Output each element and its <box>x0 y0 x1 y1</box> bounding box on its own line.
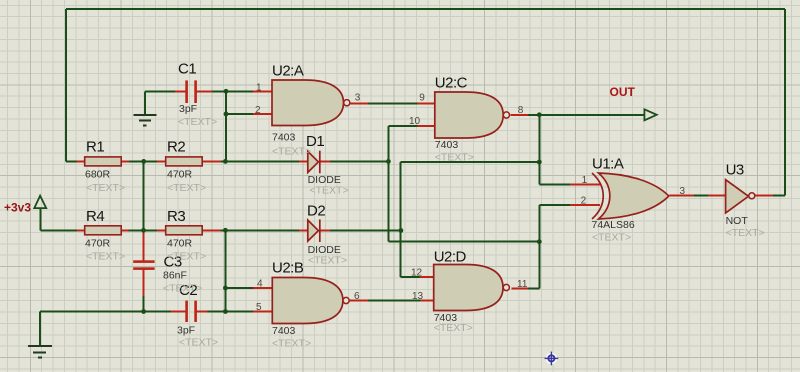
svg-text:11: 11 <box>517 279 528 290</box>
svg-text:<TEXT>: <TEXT> <box>272 146 311 158</box>
svg-text:NOT: NOT <box>726 215 749 227</box>
svg-text:<TEXT>: <TEXT> <box>178 116 217 128</box>
svg-text:3pF: 3pF <box>177 325 195 337</box>
svg-text:10: 10 <box>409 116 421 127</box>
svg-text:2: 2 <box>581 196 587 207</box>
svg-text:R4: R4 <box>86 208 104 225</box>
svg-text:OUT: OUT <box>610 85 636 99</box>
svg-text:9: 9 <box>419 93 425 104</box>
svg-text:D2: D2 <box>307 203 325 220</box>
svg-text:7403: 7403 <box>272 325 296 337</box>
svg-text:680R: 680R <box>85 169 111 181</box>
svg-text:5: 5 <box>256 302 262 313</box>
svg-text:1: 1 <box>256 83 262 94</box>
svg-text:R1: R1 <box>86 139 104 156</box>
svg-text:<TEXT>: <TEXT> <box>167 251 206 263</box>
svg-text:U3: U3 <box>726 162 744 179</box>
svg-text:13: 13 <box>412 291 424 302</box>
svg-text:<TEXT>: <TEXT> <box>179 337 218 349</box>
svg-text:U2:C: U2:C <box>435 75 468 92</box>
svg-text:<TEXT>: <TEXT> <box>308 255 347 267</box>
svg-text:74ALS86: 74ALS86 <box>592 219 635 231</box>
svg-text:470R: 470R <box>167 169 193 181</box>
svg-text:+3v3: +3v3 <box>4 200 31 214</box>
svg-text:<TEXT>: <TEXT> <box>435 152 474 164</box>
svg-text:<TEXT>: <TEXT> <box>726 227 765 239</box>
svg-text:4: 4 <box>257 279 263 290</box>
svg-text:R3: R3 <box>167 208 185 225</box>
svg-text:<TEXT>: <TEXT> <box>434 322 473 334</box>
svg-text:3pF: 3pF <box>179 103 197 115</box>
svg-text:<TEXT>: <TEXT> <box>163 283 202 295</box>
svg-text:3: 3 <box>355 93 361 104</box>
svg-text:470R: 470R <box>167 238 193 250</box>
svg-text:C1: C1 <box>178 61 196 78</box>
svg-text:470R: 470R <box>85 238 111 250</box>
svg-text:1: 1 <box>582 175 588 186</box>
svg-text:<TEXT>: <TEXT> <box>167 182 206 194</box>
svg-text:<TEXT>: <TEXT> <box>592 232 631 244</box>
svg-text:8: 8 <box>518 105 524 116</box>
svg-text:12: 12 <box>411 267 423 278</box>
svg-text:U2:A: U2:A <box>272 63 304 80</box>
svg-text:R2: R2 <box>167 139 185 156</box>
svg-text:U2:B: U2:B <box>272 260 304 277</box>
svg-text:<TEXT>: <TEXT> <box>272 338 311 350</box>
svg-text:<TEXT>: <TEXT> <box>310 185 349 197</box>
svg-text:U2:D: U2:D <box>434 249 467 266</box>
svg-text:7403: 7403 <box>272 132 296 144</box>
svg-text:<TEXT>: <TEXT> <box>86 251 125 263</box>
svg-text:6: 6 <box>354 291 360 302</box>
svg-text:<TEXT>: <TEXT> <box>86 182 125 194</box>
svg-text:86nF: 86nF <box>163 270 187 282</box>
svg-text:U1:A: U1:A <box>592 156 624 173</box>
svg-text:3: 3 <box>680 186 686 197</box>
svg-text:7403: 7403 <box>435 139 459 151</box>
svg-text:2: 2 <box>255 105 261 116</box>
